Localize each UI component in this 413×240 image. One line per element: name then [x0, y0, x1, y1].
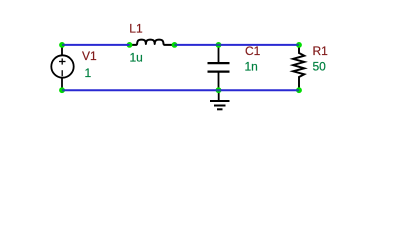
svg-text:50: 50 [313, 60, 327, 74]
svg-text:1: 1 [85, 66, 92, 80]
svg-text:R1: R1 [313, 44, 329, 58]
svg-text:C1: C1 [245, 44, 261, 58]
svg-text:V1: V1 [82, 49, 97, 63]
svg-text:1n: 1n [245, 60, 258, 74]
svg-text:L1: L1 [129, 22, 143, 36]
svg-text:1u: 1u [130, 51, 143, 65]
